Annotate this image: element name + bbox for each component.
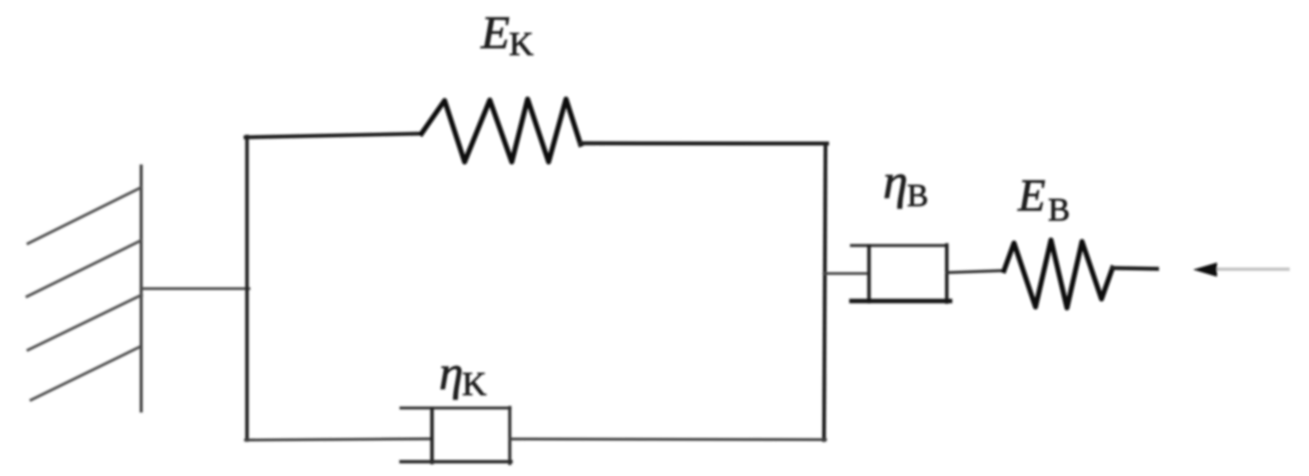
- wire bottom-left to dashpot etaK: [246, 439, 433, 440]
- load arrow head: [1193, 263, 1217, 277]
- dashpot etaK piston: [430, 409, 434, 463]
- wire dashpot etaB to spring EB: [947, 271, 1004, 273]
- svg-text:η: η: [883, 153, 908, 209]
- svg-text:B: B: [1048, 193, 1070, 229]
- wire wall to Kelvin frame: [141, 287, 249, 290]
- wall hatch 3: [28, 295, 142, 350]
- label etaB: [883, 153, 928, 213]
- Kelvin frame right edge: [824, 144, 826, 441]
- svg-text:E: E: [480, 7, 510, 59]
- svg-text:E: E: [1017, 171, 1046, 221]
- label EB: [1017, 171, 1070, 229]
- dashpot etaB cylinder right: [945, 245, 949, 302]
- svg-text:K: K: [509, 26, 534, 63]
- svg-text:η: η: [439, 345, 463, 400]
- dashpot etaB cylinder top: [852, 244, 948, 247]
- Kelvin frame left edge: [245, 137, 249, 441]
- wall: [140, 166, 143, 411]
- wall hatch 2: [27, 241, 141, 297]
- dashpot etaK cylinder bottom: [401, 460, 511, 463]
- dashpot etaK cylinder right: [508, 408, 511, 464]
- spring EK: [422, 99, 581, 162]
- svg-text:K: K: [462, 366, 487, 403]
- wall hatch 1: [28, 188, 141, 244]
- wire top-left to spring EK: [246, 134, 422, 138]
- wire spring EB free end: [1113, 266, 1158, 271]
- label etaK: [439, 345, 487, 403]
- wall hatch 4: [31, 347, 140, 400]
- wire Kelvin frame to dashpot etaB: [824, 272, 869, 275]
- wire dashpot etaK to bottom-right corner: [510, 438, 826, 441]
- wire spring EK to top-right corner: [581, 141, 828, 145]
- label EK: [480, 7, 534, 63]
- dashpot etaK cylinder top: [401, 407, 510, 410]
- load arrow line: [1213, 268, 1288, 271]
- dashpot etaB piston: [867, 246, 871, 302]
- svg-text:B: B: [907, 177, 928, 213]
- dashpot etaB cylinder bottom: [852, 299, 951, 304]
- spring EB: [1004, 240, 1113, 308]
